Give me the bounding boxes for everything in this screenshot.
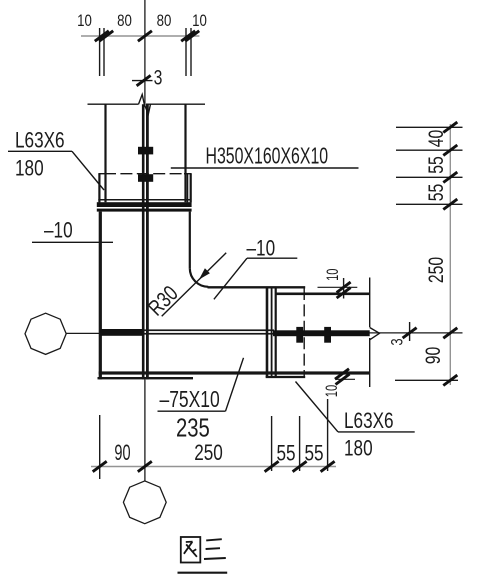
svg-text:10: 10 — [192, 12, 207, 31]
extension line bottom 55 second — [299, 416, 301, 471]
extension lines top bolt gauge pair left — [99, 28, 101, 76]
svg-text:90: 90 — [114, 440, 130, 465]
extension line bottom left 90 — [99, 415, 101, 479]
splice plate band upper — [97, 202, 192, 207]
node vertical grid centerline upper — [144, 0, 146, 104]
svg-text:10: 10 — [77, 12, 92, 31]
svg-text:80: 80 — [157, 12, 172, 31]
splice angle hidden top edge dashed — [98, 173, 104, 175]
knee plate inner vertical edge — [189, 212, 191, 269]
svg-text:10: 10 — [323, 385, 342, 397]
extension line right splice — [396, 203, 463, 205]
beam end cut line — [369, 278, 371, 328]
bolt column splice lower — [138, 174, 153, 182]
svg-text:10: 10 — [324, 268, 343, 280]
svg-text:250: 250 — [194, 441, 223, 466]
svg-text:–75X10: –75X10 — [160, 388, 220, 413]
svg-text:55: 55 — [424, 156, 448, 174]
weld callout right line — [409, 322, 411, 341]
knee end vertical line 1 — [266, 287, 269, 377]
knee and beam bottom flange line — [99, 371, 370, 374]
beam splice angle box left edge — [275, 288, 277, 377]
ticks 10 dim top right — [337, 282, 351, 292]
svg-text:L63X6: L63X6 — [15, 129, 65, 154]
leader underline -10 right — [247, 257, 297, 259]
beam top flange — [275, 293, 370, 296]
beam web thick band through splice — [273, 330, 370, 336]
tick marks group — [93, 31, 458, 472]
leader diagonal L63X6 bottom right — [296, 382, 339, 432]
leader underline L63X6 180 top left — [8, 150, 72, 152]
node horizontal grid line left stub to bubble — [66, 332, 99, 334]
extension line right 90 bottom — [395, 379, 458, 381]
svg-text:55: 55 — [304, 442, 323, 467]
extension line right bolt row 2 — [396, 176, 463, 178]
leader underline -75X10 — [158, 410, 226, 412]
svg-text:55: 55 — [276, 442, 295, 467]
leader underline H350X160X6X10 — [171, 167, 359, 169]
svg-text:–10: –10 — [44, 219, 73, 244]
dimension line right — [449, 124, 451, 385]
extension line bottom 55 first — [271, 416, 273, 471]
extension line bottom 55 third — [327, 399, 329, 471]
svg-text:H350X160X6X10: H350X160X6X10 — [206, 144, 329, 170]
svg-text:40: 40 — [424, 130, 448, 148]
beam web dark block between knee edge and column web — [100, 329, 144, 336]
node grid bubble bottom (octagon) — [123, 481, 166, 524]
bolt beam splice left — [296, 327, 303, 343]
splice angle cleat box right edge double — [187, 174, 189, 203]
splice angle cleat box left edge — [98, 174, 100, 203]
column lower end line above splice — [98, 199, 191, 201]
knee plate left outer edge — [99, 212, 102, 380]
beam end break zigzag — [370, 328, 380, 340]
tick weld top — [137, 75, 151, 85]
knee plate R30 fillet arc — [190, 268, 209, 287]
column flange right — [184, 104, 186, 202]
text labels — [77, 12, 207, 31]
caption figure three character san — [204, 539, 226, 559]
leader underline L63X6 180 bottom right — [338, 431, 415, 433]
dimension line bottom — [91, 466, 336, 468]
beam splice angle box bottom edge — [266, 376, 306, 378]
dim line 10 top right — [318, 286, 358, 288]
leader diagonal L63X6 top left — [72, 151, 104, 190]
svg-text:L63X6: L63X6 — [344, 409, 394, 434]
extension line right 40 top — [396, 126, 463, 128]
column upper cut line with break — [88, 103, 139, 105]
svg-text:80: 80 — [117, 12, 132, 31]
ticks bottom dimension — [93, 461, 107, 471]
ticks top dimension — [95, 31, 109, 41]
splice plate band lower — [97, 209, 192, 212]
leader diagonal -75X10 — [226, 358, 244, 411]
beam splice angle hidden edge dashed — [303, 288, 305, 377]
svg-text:180: 180 — [344, 437, 373, 462]
weld callout top line — [132, 80, 153, 82]
node horizontal grid line right of beam cut — [370, 332, 463, 334]
svg-text:3: 3 — [154, 65, 163, 89]
svg-text:90: 90 — [421, 347, 445, 365]
bolt column splice upper — [138, 147, 153, 155]
leader line R30 — [162, 253, 227, 316]
svg-text:3: 3 — [388, 338, 407, 345]
svg-text:–10: –10 — [247, 237, 276, 262]
leader underline -10 left — [32, 241, 113, 243]
extension line 10 dim top right — [343, 278, 345, 299]
caption figure three character tu — [181, 537, 201, 563]
beam web lower face line — [144, 333, 275, 335]
column web line A — [142, 104, 145, 379]
svg-text:250: 250 — [424, 257, 448, 283]
beam web upper face line — [144, 329, 275, 331]
node grid bubble left (octagon) — [25, 313, 66, 354]
svg-text:55: 55 — [424, 184, 448, 202]
leader diagonal -10 right — [214, 258, 247, 299]
tick weld right — [403, 328, 417, 338]
bolt beam splice right — [324, 327, 331, 343]
svg-text:R30: R30 — [144, 281, 184, 321]
ticks right dimension — [443, 122, 457, 132]
caption underline — [178, 572, 228, 574]
extension line right bolt row 1 — [396, 149, 463, 151]
dimension line top — [81, 35, 199, 37]
column web line B — [146, 104, 149, 379]
svg-text:180: 180 — [15, 157, 44, 182]
node vertical grid centerline lower — [144, 379, 146, 481]
arrowhead R30 — [199, 268, 210, 279]
ticks 10 dim bottom right — [335, 369, 349, 379]
svg-text:235: 235 — [176, 413, 210, 442]
knee end vertical line 2 — [271, 287, 273, 377]
knee bottom plate -75X10 — [98, 377, 194, 379]
column flange left — [104, 104, 106, 202]
knee plate top inner edge to splice box top — [208, 286, 306, 288]
extension lines top bolt gauge pair right — [185, 28, 187, 76]
dim line 10 bottom right — [335, 378, 355, 380]
